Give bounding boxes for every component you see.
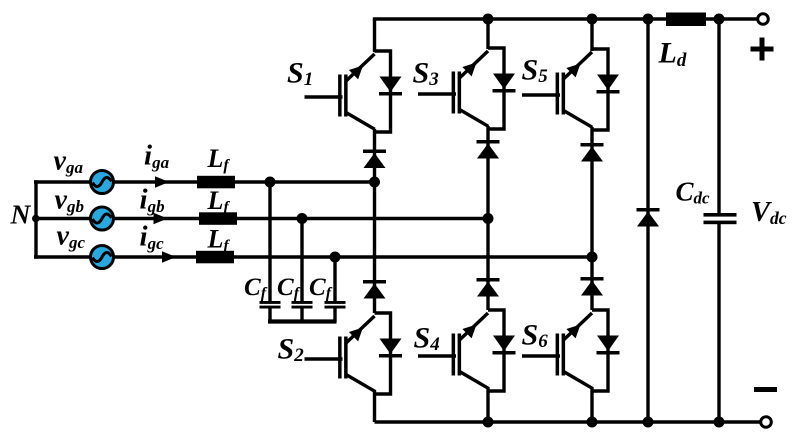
- wire: phase c: [34, 255, 594, 258]
- svg-text:S6: S6: [522, 319, 549, 353]
- wire: Cdc branch top: [717, 19, 720, 214]
- label S3: [413, 56, 439, 90]
- label v_gc: [57, 221, 86, 253]
- wire: Cf common bar: [268, 319, 337, 323]
- svg-text:Lf: Lf: [207, 144, 231, 174]
- label Lf phase c: [207, 225, 231, 255]
- minus sign: [754, 387, 777, 392]
- capacitor Cf b: [292, 301, 313, 309]
- voltage source v_ga: [91, 171, 114, 194]
- current arrow i_gc: [162, 251, 176, 262]
- wire: leg 3, S5 emitter to phase-c node: [590, 127, 593, 257]
- IGBT S4 with antiparallel diode: [418, 310, 516, 391]
- svg-text:Ld: Ld: [658, 37, 687, 71]
- IGBT S6 with antiparallel diode: [522, 310, 620, 391]
- label S5: [522, 53, 549, 87]
- wire: leg 1 bottom (S2 emitter to rail): [373, 390, 376, 422]
- svg-text:Cf: Cf: [277, 274, 301, 302]
- IGBT S3 with antiparallel diode: [418, 48, 516, 129]
- junction: top rail / freewheel diode branch: [643, 14, 654, 25]
- series diode D4 (above S4): [477, 278, 500, 297]
- wire: Cdc branch bottom: [717, 224, 720, 423]
- svg-text:Cf: Cf: [244, 274, 268, 302]
- svg-text:S5: S5: [522, 53, 549, 87]
- svg-text:S2: S2: [278, 332, 305, 366]
- terminal: DC-: [761, 417, 772, 428]
- svg-text:Cf: Cf: [309, 274, 333, 302]
- svg-text:N: N: [10, 198, 32, 229]
- junction: top rail / leg 2: [483, 14, 494, 25]
- series diode D2 (above S2): [363, 280, 386, 299]
- wire: leg 3, phase-c node to S6: [590, 257, 593, 310]
- IGBT S5 with antiparallel diode: [522, 49, 620, 130]
- IGBT S2 with antiparallel diode: [305, 313, 403, 394]
- series diode D5 (below S5): [581, 143, 604, 162]
- inductor Lf phase c: [196, 251, 234, 263]
- wire: freewheel diode branch: [646, 19, 649, 422]
- label i_gb: [140, 184, 165, 217]
- wire: leg 1, phase-a node to S2: [373, 182, 376, 313]
- label S2: [278, 332, 305, 366]
- capacitor Cf a: [260, 301, 281, 309]
- junction: top rail / leg 3: [587, 14, 598, 25]
- wire: neutral bus: [34, 180, 37, 258]
- series diode D1 (below S1): [363, 150, 386, 169]
- freewheel diode D7: [637, 208, 660, 227]
- label i_gc: [140, 221, 165, 254]
- svg-text:Vdc: Vdc: [751, 197, 787, 228]
- junction: phase b / Cf-b branch: [297, 213, 308, 224]
- label v_gb: [55, 185, 84, 217]
- label i_ga: [144, 139, 170, 172]
- svg-text:Lf: Lf: [207, 225, 231, 255]
- wire: leg 2, S3 emitter to phase-b node: [486, 126, 489, 219]
- wire: top DC rail: [373, 17, 757, 20]
- junction: bottom rail / leg 3: [587, 417, 598, 428]
- wire: leg 3 top (rail to S5 collector): [590, 19, 593, 51]
- label Lf phase a: [207, 144, 231, 174]
- capacitor Cf c: [325, 301, 346, 309]
- wire: Cf-b branch: [300, 219, 303, 323]
- wire: leg 1 top (rail to S1 collector): [373, 19, 376, 52]
- junction: bottom rail / Cdc branch: [714, 417, 725, 428]
- svg-text:S1: S1: [287, 57, 313, 91]
- inductor Lf phase a: [197, 176, 235, 189]
- svg-text:vga: vga: [54, 145, 84, 177]
- series diode D3 (below S3): [477, 140, 500, 159]
- junction: phase c / Cf-c branch: [330, 252, 341, 263]
- IGBT S1 with antiparallel diode: [305, 51, 403, 132]
- wire: leg 2 bottom (S4 emitter to rail): [486, 387, 489, 422]
- label Lf phase b: [207, 186, 231, 216]
- label Cdc: [676, 177, 711, 208]
- svg-text:vgc: vgc: [57, 221, 86, 253]
- junction: bottom rail / freewheel diode branch: [643, 417, 654, 428]
- wire: leg 2, phase-b node to S4: [486, 219, 489, 311]
- label S1: [287, 57, 313, 91]
- wire: Cf-c branch: [333, 257, 336, 322]
- node N label: [10, 198, 32, 229]
- wire: leg 1, S1 emitter to phase-a node: [373, 129, 376, 182]
- svg-text:iga: iga: [144, 139, 170, 172]
- label Ld: [658, 37, 687, 71]
- label Cf c: [309, 274, 333, 302]
- voltage source v_gb: [91, 207, 114, 230]
- junction: bottom rail / leg 2: [483, 417, 494, 428]
- label Vdc: [751, 197, 787, 228]
- wire: bottom DC rail: [375, 420, 761, 423]
- current arrow i_ga: [155, 176, 169, 187]
- svg-text:igc: igc: [140, 221, 165, 254]
- svg-text:Cdc: Cdc: [676, 177, 711, 208]
- junction: phase b / leg 2: [483, 213, 494, 224]
- wire: phase b: [34, 217, 490, 220]
- wire: Cf-a branch: [268, 182, 271, 322]
- svg-text:Lf: Lf: [207, 186, 231, 216]
- inductor Lf phase b: [199, 212, 237, 225]
- junction: phase a / Cf-a branch: [265, 177, 276, 188]
- inductor Ld: [666, 13, 706, 27]
- label S4: [414, 322, 440, 356]
- label Cf a: [244, 274, 268, 302]
- terminal: DC+: [758, 14, 769, 25]
- wire: phase a: [34, 180, 376, 183]
- label v_ga: [54, 145, 84, 177]
- node N junction dot: [32, 215, 40, 223]
- label S6: [522, 319, 549, 353]
- label Cf b: [277, 274, 301, 302]
- junction: top rail / Cdc branch: [714, 14, 725, 25]
- svg-text:S4: S4: [414, 322, 440, 356]
- voltage source v_gc: [91, 246, 114, 269]
- svg-text:vgb: vgb: [55, 185, 84, 217]
- junction: phase a / leg 1: [369, 177, 380, 188]
- wire: leg 3 bottom (S6 emitter to rail): [590, 387, 593, 422]
- plus sign: [751, 38, 774, 61]
- series diode D6 (above S6): [581, 277, 604, 296]
- svg-text:S3: S3: [413, 56, 439, 90]
- svg-text:igb: igb: [140, 184, 165, 217]
- junction: phase c / leg 3: [587, 252, 598, 263]
- capacitor Cdc: [704, 213, 737, 224]
- wire: leg 2 top (rail to S3 collector): [486, 19, 489, 49]
- current arrow i_gb: [154, 213, 168, 224]
